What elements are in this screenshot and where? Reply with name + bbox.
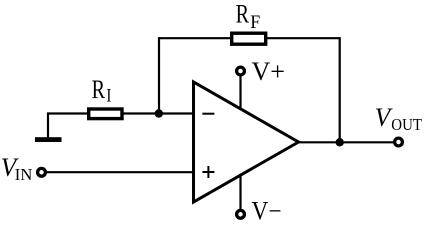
svg-text:R: R: [236, 0, 250, 29]
svg-text:IN: IN: [15, 165, 33, 184]
svg-text:V−: V−: [252, 197, 282, 224]
svg-text:R: R: [92, 75, 106, 104]
svg-text:V+: V+: [252, 57, 286, 86]
svg-text:I: I: [106, 85, 111, 106]
svg-text:F: F: [250, 12, 260, 33]
svg-text:OUT: OUT: [391, 115, 422, 134]
